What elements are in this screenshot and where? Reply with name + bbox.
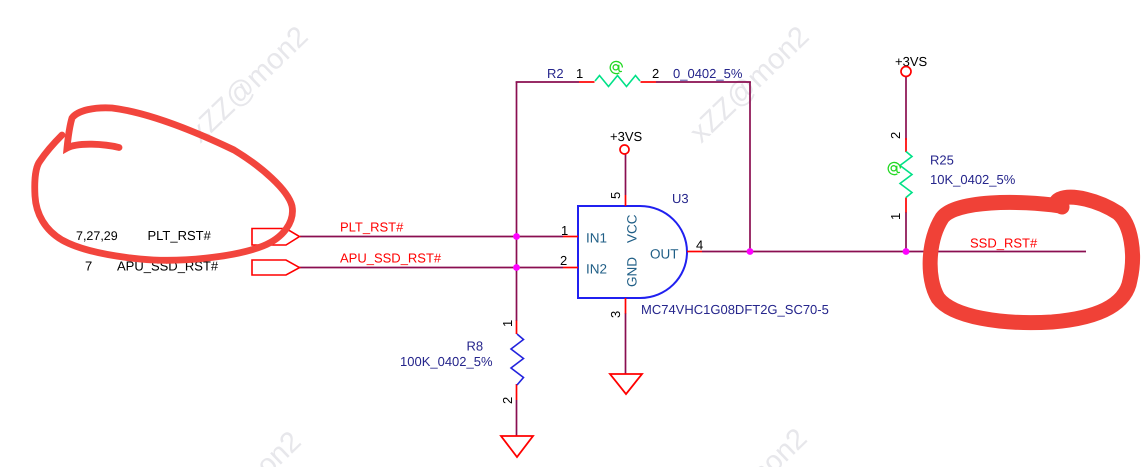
svg-text:5: 5 (608, 192, 623, 199)
junction node R25/output (903, 248, 910, 255)
U3 pin 3 stub (608, 298, 626, 318)
svg-text:+3VS: +3VS (895, 54, 927, 69)
power +3VS above U3 (610, 129, 642, 154)
svg-text:1: 1 (500, 320, 515, 327)
svg-text:3: 3 (608, 311, 623, 318)
wire vertical input node (516, 82, 518, 321)
svg-text:0_0402_5%: 0_0402_5% (673, 66, 743, 81)
svg-text:PLT_RST#: PLT_RST# (148, 228, 212, 243)
junction node IN2/vertical (513, 264, 520, 271)
AND gate U3 (578, 191, 829, 317)
svg-text:VCC: VCC (625, 214, 640, 243)
wire feedback vertical right (749, 82, 751, 252)
wire PLT_RST# horizontal (300, 236, 563, 238)
wire +3VS to U3 pin5 (625, 154, 627, 195)
svg-text:MC74VHC1G08DFT2G_SC70-5: MC74VHC1G08DFT2G_SC70-5 (641, 302, 829, 317)
annotation red scribble right (930, 197, 1132, 322)
svg-text:2: 2 (500, 397, 515, 404)
svg-text:OUT: OUT (650, 247, 679, 262)
svg-text:APU_SSD_RST#: APU_SSD_RST# (340, 251, 442, 266)
svg-text:R2: R2 (547, 66, 564, 81)
U3 pin 5 stub (608, 192, 626, 206)
svg-text:SSD_RST#: SSD_RST# (970, 236, 1038, 251)
wire APU_SSD_RST# horizontal (298, 267, 563, 269)
annotation red scribble left (35, 108, 293, 260)
U3 pin 4 stub (687, 238, 703, 253)
svg-text:2: 2 (652, 66, 659, 81)
wire OUT to SSD_RST# (702, 251, 1086, 253)
power +3VS above R25 (895, 54, 927, 77)
svg-text:+3VS: +3VS (610, 129, 642, 144)
svg-text:1: 1 (561, 223, 568, 238)
svg-text:1: 1 (576, 66, 583, 81)
svg-text:2: 2 (560, 253, 567, 268)
svg-text:4: 4 (696, 238, 703, 253)
resistor R25 (888, 132, 1016, 220)
svg-text:7: 7 (85, 259, 92, 274)
svg-text:xZZ@mon2: xZZ@mon2 (183, 20, 315, 149)
port PLT_RST# (76, 228, 300, 245)
svg-text:10K_0402_5%: 10K_0402_5% (930, 172, 1016, 187)
wire R2 top right (656, 81, 751, 83)
svg-text:IN1: IN1 (586, 231, 607, 246)
svg-text:IN2: IN2 (586, 262, 607, 277)
port APU_SSD_RST# (85, 259, 300, 276)
svg-text:R25: R25 (930, 153, 954, 168)
wire R25 pin1 to output net (905, 212, 907, 252)
svg-text:R8: R8 (467, 339, 484, 354)
svg-text:U3: U3 (672, 191, 689, 206)
svg-text:1: 1 (888, 213, 903, 220)
junction node OUT/feedback (747, 248, 754, 255)
wire +3VS to R25 pin2 (905, 77, 907, 141)
wire R2 top left (516, 81, 579, 83)
resistor R8 (400, 320, 524, 404)
svg-text:PLT_RST#: PLT_RST# (340, 220, 404, 235)
ground below U3 pin 3 (610, 374, 642, 394)
wire U3 pin3 to ground (625, 313, 627, 374)
svg-text:xZZ@mon2: xZZ@mon2 (682, 422, 814, 467)
svg-text:GND: GND (625, 257, 640, 287)
svg-text:100K_0402_5%: 100K_0402_5% (400, 354, 493, 369)
svg-text:xZZ@mon2: xZZ@mon2 (176, 425, 308, 467)
U3 pin 2 stub (560, 253, 578, 268)
junction node IN1/vertical (513, 233, 520, 240)
svg-text:7,27,29: 7,27,29 (76, 229, 118, 243)
U3 pin 1 stub (561, 223, 578, 238)
svg-text:2: 2 (888, 132, 903, 139)
wire R8 pin2 to ground (516, 400, 518, 436)
resistor R2 (547, 61, 743, 86)
ground below R8 (501, 436, 533, 457)
